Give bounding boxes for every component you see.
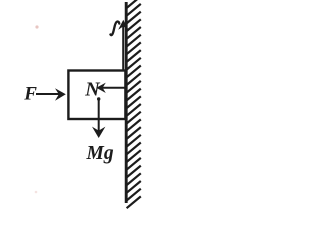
svg-text:F: F — [23, 84, 37, 105]
svg-text:N: N — [84, 78, 101, 100]
svg-text:Mg: Mg — [86, 143, 114, 164]
